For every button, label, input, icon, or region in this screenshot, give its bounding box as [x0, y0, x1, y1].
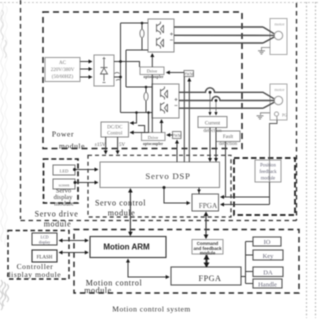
wire ARM to motion FPGA	[128, 260, 168, 277]
wire bus to DA	[246, 271, 254, 273]
wire position feedback below box	[269, 160, 271, 182]
wire servo FPGA to command module	[205, 214, 207, 238]
DC bus vertical 1	[120, 23, 122, 113]
svg-text:detection: detection	[219, 142, 238, 147]
wire LED to DSP	[75, 169, 98, 171]
svg-text:LED: LED	[60, 169, 69, 174]
svg-text:detection: detection	[203, 129, 222, 134]
wire DSP to PWM 1	[188, 80, 190, 163]
DC bus vertical 2	[125, 50, 127, 87]
DC/DC control box	[101, 122, 129, 137]
servo DSP box	[100, 162, 220, 188]
wire DC/DC output +-15V	[105, 137, 107, 153]
wire motion FPGA to peripheral bus	[241, 276, 246, 278]
svg-text:FPGA: FPGA	[199, 202, 218, 210]
ground symbol motor 2	[257, 116, 264, 119]
svg-text:Motion control system: Motion control system	[112, 305, 190, 314]
svg-text:display: display	[39, 240, 51, 245]
svg-text:module: module	[84, 286, 112, 295]
rectifier box	[94, 55, 114, 86]
scan artifact: right edge dotted rule 1	[306, 2, 308, 318]
wire rectifier negative output	[114, 76, 121, 78]
svg-text:DA: DA	[263, 270, 273, 277]
encoder PG circle	[274, 112, 278, 116]
motion control module dashed box	[74, 230, 299, 294]
svg-text:feedback: feedback	[259, 170, 277, 175]
wire screen to DSP	[75, 182, 97, 184]
svg-text:Servo control: Servo control	[95, 199, 146, 208]
svg-text:Servo DSP: Servo DSP	[145, 171, 190, 181]
svg-text:5V: 5V	[119, 143, 126, 148]
motor 2 circle	[274, 96, 282, 104]
IGBT Q2 lower of bridge 1	[157, 38, 164, 49]
bridge 1 output node marks	[170, 33, 173, 41]
capacitor C2 body	[144, 92, 148, 100]
scan artifact: upper-left noise accent	[1, 10, 7, 58]
wire ground stub motor 1	[262, 48, 271, 51]
wire drive 1 to bridge 1	[151, 55, 153, 67]
svg-text:Drive: Drive	[147, 68, 157, 73]
wire DC bus tap to DC/DC input 1	[130, 113, 137, 124]
screen box	[53, 179, 75, 189]
svg-text:module: module	[261, 177, 275, 182]
wire DSP to motion ARM vertical link	[129, 190, 131, 233]
command and feedback module box	[192, 240, 223, 255]
svg-text:Key: Key	[263, 253, 275, 260]
svg-text:(50/60HZ): (50/60HZ)	[52, 75, 74, 80]
PWM box 1	[184, 71, 194, 77]
wire LCD display to ARM	[60, 240, 88, 242]
peripheral bus vertical	[245, 242, 247, 284]
servo control module dashed box	[88, 155, 231, 217]
wire current sensor 1 drop	[209, 92, 211, 113]
wire PG feedback down	[270, 120, 278, 160]
wire PWM 2 to drive 2	[167, 134, 172, 136]
scan artifact: faint top dotted rule	[0, 2, 320, 4]
wire AC to rectifier phase c	[80, 76, 91, 78]
position feedback module dashed box	[234, 158, 295, 215]
bridge 2 output node marks	[175, 98, 178, 106]
IGBT Q3 upper of bridge 2	[161, 87, 168, 100]
svg-text:Motion ARM: Motion ARM	[103, 243, 150, 252]
svg-text:220V/380V: 220V/380V	[51, 68, 75, 73]
svg-text:Position: Position	[260, 164, 276, 169]
scan artifact: left edge noise band	[1, 2, 4, 242]
wire current detection to DSP 2	[215, 128, 217, 160]
motor 1 circle	[274, 31, 282, 39]
current detection box	[198, 117, 227, 128]
motion FPGA box	[171, 267, 241, 285]
controller display module dashed box	[8, 231, 69, 280]
svg-text:module: module	[44, 220, 72, 229]
svg-text:FPGA: FPGA	[199, 274, 222, 283]
svg-text:module: module	[59, 142, 85, 151]
svg-text:motor: motor	[274, 22, 285, 27]
svg-text:motor: motor	[274, 87, 285, 92]
AC source box	[45, 58, 80, 82]
wire DSP to PWM 2	[176, 142, 178, 163]
wire squiggle marks on DC link	[115, 73, 122, 81]
wire current detection to DSP 1	[209, 128, 211, 160]
svg-text:Control: Control	[107, 132, 123, 137]
wire position feedback to servo FPGA 1	[222, 196, 270, 198]
wire rectifier positive output	[114, 61, 121, 63]
FLASH box	[32, 250, 57, 262]
svg-text:PG: PG	[282, 113, 287, 118]
svg-text:FLASH: FLASH	[37, 256, 53, 261]
scan artifact: bottom-left denser noise patch	[0, 280, 9, 310]
svg-text:Servo drive: Servo drive	[35, 210, 79, 219]
IO box	[253, 237, 281, 246]
svg-text:Fault: Fault	[223, 135, 234, 140]
IGBT Q1 upper of bridge 1	[157, 22, 164, 35]
svg-text:Current: Current	[205, 122, 221, 127]
capacitor C1 branch	[141, 23, 143, 50]
svg-text:module: module	[54, 201, 74, 208]
handle box	[253, 279, 282, 288]
svg-text:Power: Power	[52, 130, 74, 139]
wire bus to IO	[246, 241, 254, 243]
wire fault detection to servo FPGA	[225, 142, 227, 198]
svg-text:±15V: ±15V	[94, 143, 106, 148]
svg-text:Drive: Drive	[148, 135, 158, 140]
power module dashed box	[43, 12, 242, 149]
servo display module dashed box	[44, 159, 79, 203]
motor phase wires set 1	[174, 27, 274, 43]
junction dots	[73, 22, 217, 189]
wire DSP to servo FPGA L-bend	[164, 188, 189, 204]
wire DC bus tap to DC/DC input 2	[130, 113, 149, 133]
arrowheads	[59, 53, 225, 279]
wire DC/DC output 5V	[117, 137, 119, 153]
capacitor C1 body	[140, 29, 144, 37]
position feedback module inner box	[255, 160, 281, 182]
motor phase wires set 2 with current sensor loops	[179, 88, 274, 108]
wire command module to motion FPGA	[205, 255, 207, 267]
fault detection box	[216, 131, 240, 142]
wire bus to key	[246, 254, 254, 256]
svg-text:Handle: Handle	[258, 282, 277, 289]
ground symbol motor 1	[258, 51, 265, 54]
scan artifact: right edge dotted rule 2	[315, 2, 317, 318]
drive optocoupler box 1	[140, 67, 164, 75]
key box	[253, 250, 283, 260]
wire PWM 1 to drive 1	[167, 72, 184, 74]
wire DSP to servo FPGA direct	[198, 188, 200, 195]
PWM box 2	[173, 132, 182, 139]
drive optocoupler box 2	[142, 133, 166, 141]
motion ARM box	[90, 237, 166, 258]
wire drive 1 lower feed	[151, 75, 153, 133]
wire AC to rectifier phase b	[80, 68, 91, 70]
wire AC to rectifier phase a	[80, 61, 91, 63]
LCD display box	[32, 233, 57, 245]
DC bus top rail to bridge 2	[126, 86, 152, 88]
capacitor C2 branch	[145, 87, 147, 113]
servo FPGA box	[192, 194, 219, 211]
svg-text:PWM: PWM	[172, 133, 182, 138]
motor 2 box	[270, 84, 287, 120]
wire bus to handle	[246, 283, 254, 285]
inverter bridge 1 box	[148, 19, 174, 52]
DC bus top rail to bridge 1	[121, 22, 149, 24]
svg-text:display module: display module	[7, 270, 62, 279]
wire FLASH to ARM	[60, 252, 88, 254]
motor 1 box	[270, 19, 287, 55]
DC bus lower rail to bridge 1	[126, 49, 148, 51]
servo drive module dashed border	[21, 0, 297, 221]
svg-text:optocoupler: optocoupler	[144, 75, 164, 79]
wire current sensor 2 drop	[215, 101, 217, 114]
svg-text:optocoupler: optocoupler	[143, 142, 163, 146]
svg-text:DC/DC: DC/DC	[107, 126, 123, 131]
inverter bridge 2 box	[152, 84, 179, 118]
svg-text:PWM: PWM	[184, 71, 194, 76]
wire position feedback to servo FPGA 2	[222, 204, 270, 206]
wire PG stub	[276, 116, 278, 120]
svg-text:AC: AC	[59, 61, 67, 66]
rectifier diode symbol	[101, 57, 108, 83]
LED box	[53, 165, 75, 175]
IGBT Q4 lower of bridge 2	[161, 103, 168, 114]
wire drive 2 to bridge 2	[161, 121, 163, 133]
svg-text:IO: IO	[264, 239, 271, 246]
DC bus bottom rail to bridge 2	[121, 112, 153, 114]
svg-text:module: module	[108, 209, 136, 218]
wire ground stub motor 2	[261, 113, 271, 115]
svg-text:module: module	[200, 251, 216, 256]
DA box	[253, 267, 283, 277]
